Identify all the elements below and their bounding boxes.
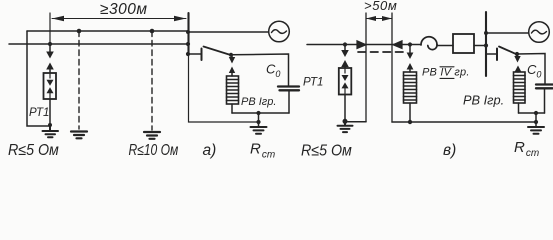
label IV overline/underline marks — [440, 67, 454, 79]
svg-text:R≤5 Ом: R≤5 Ом — [301, 143, 352, 160]
svg-text:Rст: Rст — [250, 141, 275, 161]
svg-text:РВ IV гр.: РВ IV гр. — [422, 67, 470, 79]
pole at PT1 (solid, grounded) — [27, 31, 49, 126]
ground (РТ1, в) — [338, 121, 353, 132]
node: generator wire on bus — [484, 31, 488, 35]
wire: PT1 leg to ground (a) — [49, 99, 51, 125]
node: disconnector to РВ/C0 (a) — [229, 53, 233, 57]
ground Rст (a) — [251, 127, 267, 134]
AC source G (a) — [269, 21, 290, 42]
node: line on bus — [186, 42, 190, 46]
wire: C0 lower lead (в) — [544, 89, 546, 113]
valve arrester РВ IV гр. hatched stack — [404, 72, 417, 103]
svg-text:в): в) — [443, 142, 456, 159]
pole 1 of approach (dashed) — [77, 29, 82, 129]
node: PT1 tap on line (a) — [48, 42, 52, 46]
wire: reactor to box — [437, 45, 453, 47]
node: РТ1 ground junction (в) — [343, 119, 348, 124]
node: ground tap (a) — [256, 111, 260, 115]
wire: РВ leg (a) — [231, 104, 233, 113]
wire: ground rail 113 (в) — [519, 112, 545, 114]
node: disconnector stub on bus — [186, 52, 190, 56]
capacitor C0 (a) — [278, 87, 299, 91]
substation entrance bus (a) — [187, 13, 189, 55]
wire: incoming overhead line (a) — [9, 43, 188, 45]
node: shield wire on bus — [186, 30, 190, 34]
svg-text:R≤10 Ом: R≤10 Ом — [129, 141, 179, 159]
node: line on bus (в) — [484, 43, 488, 47]
wire: РВ I leg (в) — [518, 103, 520, 113]
wire: РВ IV leg to rail — [409, 103, 411, 122]
svg-text:≥300м: ≥300м — [100, 1, 148, 18]
wire: down to station ground (a) — [258, 113, 260, 126]
svg-text:R≤5 Ом: R≤5 Ом — [8, 143, 59, 160]
svg-text:РТ1: РТ1 — [303, 77, 323, 89]
node: ground tap (в) — [534, 111, 538, 115]
wire: C0 lower lead (a) — [288, 91, 290, 113]
series box (reactor cell) — [453, 34, 474, 53]
svg-text:>50м: >50м — [364, 0, 397, 13]
cable funnel right — [393, 41, 402, 49]
spark gap of РТ1 (в) — [341, 46, 349, 68]
dimension line &#8805;300м — [52, 16, 186, 22]
node: РВ IV on ground rail — [408, 120, 412, 124]
wire: to C0 (a) — [231, 54, 289, 86]
reactor coil (в) — [421, 37, 437, 50]
svg-text:РВ Iгр.: РВ Iгр. — [463, 93, 504, 108]
spark gap of РВ I гр. (в) — [514, 55, 521, 72]
tubular arrester PT1 tube (a) — [44, 73, 57, 99]
cable termination line left (grounded) — [365, 13, 367, 122]
svg-text:РВ Iгр.: РВ Iгр. — [241, 96, 276, 108]
ground (PT1 + pole, a) — [43, 125, 59, 137]
wire: down to station ground (в) — [535, 113, 537, 126]
node: РВ IV tap (в) — [408, 42, 412, 46]
pole 2 of approach (dashed) — [150, 29, 155, 130]
disconnector (в) — [486, 47, 516, 61]
svg-text:Rст: Rст — [514, 139, 539, 159]
svg-text:а): а) — [203, 142, 217, 159]
dimension line >50м — [366, 16, 392, 21]
spark gap of РВ IV гр. — [407, 46, 414, 72]
node: PT1 ground junction — [48, 123, 52, 127]
svg-text:С0: С0 — [527, 62, 541, 80]
wire: ground rail (a) — [232, 112, 289, 114]
wire: shield wire along approach (a) — [27, 30, 188, 32]
wire: incoming overhead line (в) — [307, 44, 421, 46]
node: disconnector to РВ/C0 (в) — [515, 52, 519, 56]
disconnector (a) — [188, 47, 229, 61]
node: rail meets ground stem (в) — [534, 120, 538, 124]
AC source G (в) — [529, 22, 550, 43]
valve arrester РВ I гр. (a) hatched stack — [227, 76, 239, 104]
wire: РТ1 ground rail to cable end (в) — [345, 121, 366, 123]
wire: РТ1 leg (в) — [344, 95, 346, 122]
cable (dashed, в) — [358, 51, 406, 53]
ground (pole 2) — [144, 132, 160, 139]
wire: bus to generator (a) — [188, 31, 269, 33]
node: rail meets ground stem (a) — [256, 120, 260, 124]
wire: box to bus — [474, 45, 486, 47]
tubular arrester РТ1 tube (в) — [339, 68, 352, 95]
ground (pole 1) — [71, 132, 87, 139]
wire: to C0 (в) — [517, 54, 545, 85]
node: РТ1 tap (в) — [343, 42, 347, 46]
cable termination line right (grounded) — [391, 13, 393, 122]
wire: bus to generator (в) — [486, 32, 529, 34]
capacitor C0 (в) — [536, 85, 553, 89]
spark gap of PT1 (a) — [46, 46, 54, 73]
ground Rст (в) — [528, 127, 544, 134]
svg-text:С0: С0 — [266, 62, 280, 80]
svg-text:РТ1: РТ1 — [29, 107, 49, 119]
spark gap of РВ I гр. (a) — [229, 56, 235, 76]
valve arrester РВ I гр. (в) hatched stack — [514, 72, 526, 103]
dimension extension line at PT1 — [49, 13, 51, 44]
substation bus (в) — [485, 12, 487, 76]
cable funnel left — [357, 41, 366, 49]
